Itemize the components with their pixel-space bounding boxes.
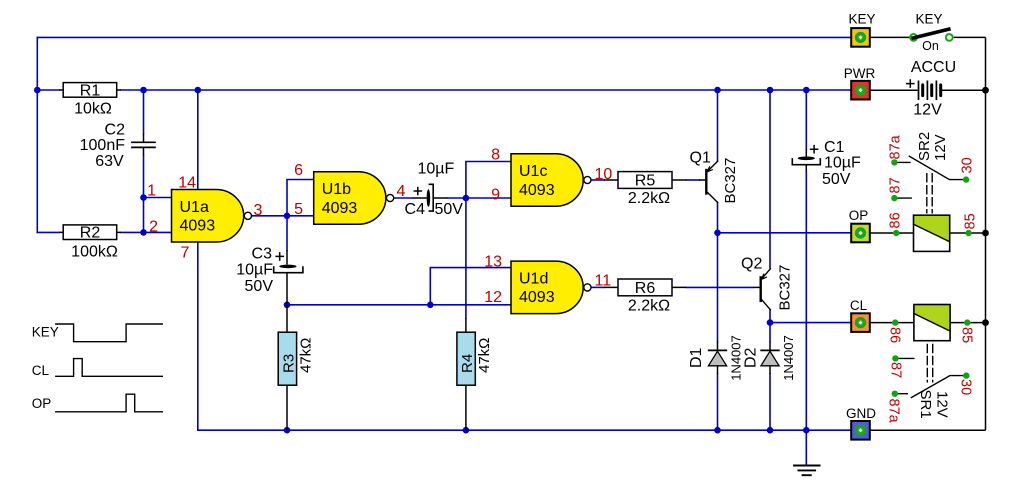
node gate input junction dots xyxy=(140,194,469,308)
connector OP xyxy=(849,208,870,242)
wire pin 14 xyxy=(197,90,199,190)
svg-text:GND: GND xyxy=(846,406,876,421)
resistor R3 xyxy=(278,305,314,430)
svg-text:63V: 63V xyxy=(95,153,124,170)
wire pins 12 net horizontal xyxy=(287,304,511,306)
resistor R2 xyxy=(59,225,121,261)
relay SR1 pin dots xyxy=(892,319,971,397)
svg-text:BC327: BC327 xyxy=(722,158,739,204)
svg-text:SR2: SR2 xyxy=(916,132,933,161)
svg-text:1N4007: 1N4007 xyxy=(781,335,796,381)
svg-text:12V: 12V xyxy=(933,391,950,418)
svg-text:On: On xyxy=(922,39,939,53)
wire D1 lower lead xyxy=(717,374,719,430)
wire Q2 collector drop xyxy=(769,310,771,322)
wire C1 top lead xyxy=(805,90,807,149)
svg-text:50V: 50V xyxy=(435,201,464,218)
svg-text:3: 3 xyxy=(254,202,263,219)
svg-text:85: 85 xyxy=(959,327,975,343)
capacitor C4 xyxy=(405,161,464,218)
svg-text:87: 87 xyxy=(888,362,904,378)
svg-text:7: 7 xyxy=(181,244,190,261)
svg-text:R3: R3 xyxy=(281,354,298,373)
svg-text:U1c: U1c xyxy=(519,163,547,180)
op-amp U1d NAND gate 4093 xyxy=(511,261,591,314)
svg-text:30: 30 xyxy=(958,379,974,395)
waveform KEY xyxy=(32,324,163,342)
svg-text:13: 13 xyxy=(484,254,502,271)
svg-text:1N4007: 1N4007 xyxy=(728,335,743,381)
wire R6 to Q2 base xyxy=(687,286,754,288)
svg-text:Q2: Q2 xyxy=(741,256,762,273)
wire C2 bottom to gate inputs xyxy=(143,156,145,233)
svg-text:U1d: U1d xyxy=(519,270,548,287)
switch KEY On xyxy=(910,11,953,53)
transistor Q2 BC327 xyxy=(741,256,794,311)
resistor R5 xyxy=(604,172,687,207)
svg-text:9: 9 xyxy=(491,186,500,203)
svg-text:4093: 4093 xyxy=(322,200,358,217)
svg-text:85: 85 xyxy=(963,213,979,229)
relay SR2 linkage xyxy=(927,173,932,214)
svg-text:2.2kΩ: 2.2kΩ xyxy=(628,190,670,207)
svg-text:KEY: KEY xyxy=(915,11,942,26)
svg-text:12: 12 xyxy=(484,289,502,306)
wire left rail xyxy=(36,37,38,232)
svg-text:87a: 87a xyxy=(888,134,904,159)
wire pin 7 xyxy=(197,242,199,430)
wire R4 top feed xyxy=(465,198,467,318)
wire battery to right rail xyxy=(942,89,986,91)
svg-text:10µF: 10µF xyxy=(418,161,455,178)
svg-text:R2: R2 xyxy=(80,225,101,242)
relay SR1 coil xyxy=(914,305,950,419)
wire U1a output to pin 5 xyxy=(252,215,314,217)
wire R1 left feed xyxy=(37,89,59,91)
transistor Q1 BC327 xyxy=(690,149,739,203)
svg-text:R5: R5 xyxy=(635,172,656,189)
wire Q1 collector drop xyxy=(717,203,719,233)
svg-text:U1a: U1a xyxy=(180,199,209,216)
wire ground symbol stem xyxy=(805,430,807,465)
svg-text:86: 86 xyxy=(888,212,904,228)
wire SR2 coil to right rail xyxy=(950,232,986,234)
svg-text:2.2kΩ: 2.2kΩ xyxy=(628,297,670,314)
svg-text:4093: 4093 xyxy=(180,218,216,235)
diode D2 1N4007 xyxy=(742,335,795,381)
wire CL to SR1 coil xyxy=(871,322,914,324)
relay SR1 switch arm xyxy=(895,358,967,398)
connector KEY xyxy=(848,11,875,46)
svg-text:100nF: 100nF xyxy=(80,137,126,154)
svg-text:OP: OP xyxy=(849,208,869,223)
connector PWR xyxy=(844,66,876,100)
svg-text:4093: 4093 xyxy=(519,182,555,199)
wire CL net xyxy=(770,322,851,324)
node collector junction dots xyxy=(714,230,773,326)
wire D1 upper lead xyxy=(717,233,719,342)
svg-text:10µF: 10µF xyxy=(236,262,273,279)
wire D2 lower lead xyxy=(769,374,771,430)
svg-text:10kΩ: 10kΩ xyxy=(74,101,112,118)
node VCC junction dots xyxy=(34,87,810,94)
svg-text:30: 30 xyxy=(960,157,976,173)
node ground rail junction dots xyxy=(284,427,810,434)
svg-text:10µF: 10µF xyxy=(824,154,861,171)
op-amp U1b NAND gate 4093 xyxy=(314,172,394,225)
svg-text:47kΩ: 47kΩ xyxy=(298,338,315,373)
svg-text:R6: R6 xyxy=(635,280,656,297)
relay SR2 switch arm xyxy=(894,156,966,198)
svg-text:12V: 12V xyxy=(913,102,942,119)
resistor R6 xyxy=(604,279,687,314)
svg-text:SR1: SR1 xyxy=(917,390,934,419)
relay SR2 pin dots xyxy=(891,159,972,236)
wire C2 top lead xyxy=(143,90,145,134)
svg-text:14: 14 xyxy=(178,175,196,192)
wire pin 6 corner xyxy=(287,180,314,216)
svg-text:CL: CL xyxy=(850,298,868,313)
wire U1d output to R6 xyxy=(591,286,604,288)
svg-text:OP: OP xyxy=(32,396,52,411)
svg-text:12V: 12V xyxy=(932,134,949,161)
svg-text:87a: 87a xyxy=(886,399,902,424)
resistor R4 xyxy=(457,318,493,430)
wire R2 left feed xyxy=(37,231,59,233)
relay SR1 linkage xyxy=(927,344,932,383)
svg-text:50V: 50V xyxy=(245,278,274,295)
svg-text:CL: CL xyxy=(32,363,50,378)
svg-text:R4: R4 xyxy=(459,354,476,373)
wire switch to right rail xyxy=(954,36,986,38)
wire right rail xyxy=(985,37,987,430)
capacitor C1 xyxy=(792,139,861,188)
wire bottom ground rail xyxy=(198,429,851,431)
svg-text:U1b: U1b xyxy=(322,181,351,198)
wire SR1 coil to right rail xyxy=(950,322,985,324)
svg-text:Q1: Q1 xyxy=(690,149,711,166)
resistor R1 xyxy=(59,82,121,117)
wire OP to SR2 coil xyxy=(871,232,914,234)
wire pin 1 xyxy=(144,197,172,199)
wire C3 top lead xyxy=(286,216,288,250)
svg-text:PWR: PWR xyxy=(844,66,876,81)
svg-text:KEY: KEY xyxy=(848,11,875,26)
wire R5 to Q1 base xyxy=(687,179,700,181)
svg-text:1: 1 xyxy=(147,183,156,200)
ground xyxy=(793,466,820,476)
wire Q2 emitter riser xyxy=(769,90,771,268)
wire D2 upper lead xyxy=(769,323,771,342)
svg-text:2: 2 xyxy=(149,219,158,236)
relay SR2 coil xyxy=(914,132,950,252)
svg-text:86: 86 xyxy=(887,327,903,343)
op-amp U1c NAND gate 4093 xyxy=(511,154,591,207)
wire C1 bottom lead xyxy=(805,172,807,430)
capacitor C3 xyxy=(236,246,303,304)
wire pin 8 corner xyxy=(466,162,511,199)
svg-text:C3: C3 xyxy=(252,246,273,263)
diode D1 1N4007 xyxy=(688,335,744,381)
connector GND xyxy=(846,406,876,440)
wire GND connector to right rail xyxy=(870,429,986,431)
waveform CL xyxy=(32,359,163,379)
wire R2 to pin 2 xyxy=(121,231,172,233)
connector CL xyxy=(850,298,870,332)
wire pin 13 corner xyxy=(430,268,511,305)
svg-text:50V: 50V xyxy=(822,171,851,188)
wire Q1 emitter riser xyxy=(717,90,719,161)
wire U1c output to R5 xyxy=(591,179,604,181)
wire VCC rail xyxy=(121,89,851,91)
capacitor C2 xyxy=(80,122,156,171)
wire PWR to battery xyxy=(870,89,918,91)
svg-text:C4: C4 xyxy=(405,201,426,218)
battery ACCU 12V xyxy=(906,59,956,119)
wire U1b output to C4 xyxy=(393,197,413,199)
wire C4 to pin 9 xyxy=(448,197,512,199)
svg-text:6: 6 xyxy=(294,162,303,179)
wire OP net xyxy=(718,232,852,234)
svg-text:D2: D2 xyxy=(742,347,759,368)
node right rail junction dots xyxy=(982,87,989,326)
wire KEY connector to switch xyxy=(870,36,910,38)
waveform OP xyxy=(32,394,163,412)
svg-text:4093: 4093 xyxy=(519,289,555,306)
svg-text:BC327: BC327 xyxy=(777,265,794,311)
op-amp U1a NAND gate 4093 xyxy=(172,190,252,243)
svg-text:4: 4 xyxy=(397,183,406,200)
svg-text:D1: D1 xyxy=(688,347,705,368)
svg-text:8: 8 xyxy=(491,147,500,164)
svg-text:R1: R1 xyxy=(80,82,101,99)
svg-text:47kΩ: 47kΩ xyxy=(476,338,493,373)
svg-text:5: 5 xyxy=(294,201,303,218)
svg-text:87: 87 xyxy=(888,177,904,193)
svg-text:KEY: KEY xyxy=(32,325,59,340)
svg-text:ACCU: ACCU xyxy=(911,59,956,76)
wire top rail KEY net xyxy=(37,36,851,38)
svg-text:100kΩ: 100kΩ xyxy=(71,244,118,261)
